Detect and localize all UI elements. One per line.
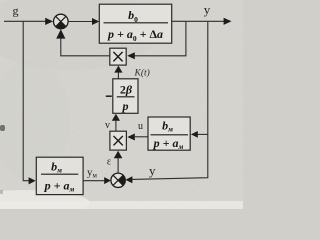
svg-text:g: g	[13, 4, 19, 18]
wire right rail y	[131, 21, 208, 179]
wire feedback to multiplier M1	[135, 21, 186, 56]
block Bm2: bm/(p+am) bottom-left	[36, 157, 83, 194]
wire Bm1 to M2	[135, 136, 148, 138]
svg-text:u: u	[138, 121, 143, 132]
multiplier M1 (upper x)	[110, 48, 126, 65]
svg-text:v: v	[105, 120, 110, 131]
wire Bm2 to S2	[83, 180, 105, 182]
block W0: b0/(p+a0+da)	[99, 4, 171, 43]
svg-text:K(t): K(t)	[134, 68, 150, 79]
wire rail to Bm1	[197, 133, 208, 135]
wire M1 to S1	[61, 38, 110, 56]
svg-text:y: y	[149, 163, 156, 178]
wire B1 to M1	[117, 72, 119, 79]
multiplier M2 (lower x)	[110, 131, 127, 150]
svg-text:2β: 2β	[120, 83, 133, 97]
wire output y	[172, 20, 225, 22]
block B1: -2beta/p	[106, 79, 138, 114]
stray scan speck	[0, 125, 5, 131]
wire S1 to block W0	[68, 21, 93, 23]
svg-text:y: y	[204, 2, 211, 17]
wire left rail g to Bm2	[23, 21, 29, 180]
svg-text:ε: ε	[107, 157, 111, 168]
block Bm1: bm/(p+am) right	[148, 117, 190, 151]
wire g input	[4, 20, 46, 22]
wire S2 to M2	[117, 158, 119, 174]
summing junction S1 (top)	[54, 14, 69, 29]
svg-text:p: p	[122, 99, 129, 113]
summing junction S2 (bottom)	[111, 173, 125, 187]
wire M2 to B1	[115, 120, 117, 131]
scanned paper background	[0, 0, 243, 209]
